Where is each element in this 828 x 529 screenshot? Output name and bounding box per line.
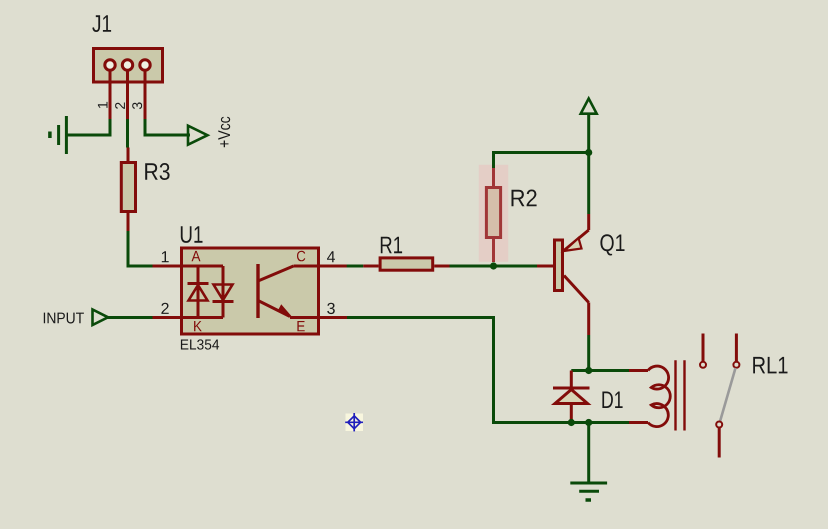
wire R1 to Q1 base (through node) <box>450 265 538 268</box>
resistor R3 <box>121 148 135 232</box>
led left rail <box>197 266 200 318</box>
label +Vcc <box>218 117 230 148</box>
pin label C <box>297 251 305 262</box>
label U1 <box>181 226 203 243</box>
power terminal +Vcc (top) <box>581 99 597 114</box>
label EL354 <box>181 339 219 349</box>
pin number 3 (J1) <box>132 102 142 109</box>
wire R3 to U1 pin1 <box>128 231 153 266</box>
wire node to D1 cathode <box>571 369 588 372</box>
wire node to relay coil top <box>589 369 629 372</box>
label D1 <box>602 392 622 409</box>
node D1 anode <box>568 419 575 426</box>
core line 1 <box>674 360 676 430</box>
wire R2 top to Vcc rail <box>494 153 589 169</box>
pin number 2 (J1) <box>115 103 125 109</box>
label J1 <box>92 15 111 32</box>
wire Q1 collector down <box>587 335 590 371</box>
label INPUT <box>44 313 84 324</box>
pin label K <box>194 321 202 331</box>
wire to ground (bottom) <box>587 423 590 484</box>
wire Vcc down to Q1 emitter <box>587 114 590 214</box>
optocoupler U1 <box>153 248 348 334</box>
contact pole left <box>702 334 705 362</box>
node ground junction <box>585 419 592 426</box>
pin 2 wire (K) <box>153 316 224 319</box>
emitter diagonal <box>258 301 290 317</box>
pin number 1 (J1) <box>98 102 108 108</box>
label RL1 <box>753 357 787 374</box>
power terminal +Vcc <box>188 126 208 145</box>
pin number 1 (U1) <box>162 251 169 262</box>
pin label A <box>192 251 201 261</box>
label Q1 <box>600 234 624 255</box>
coil bottom pin <box>629 421 648 424</box>
pin label E <box>297 321 304 331</box>
pin 4 wire (C) <box>294 265 348 268</box>
pin number 2 (U1) <box>161 303 168 314</box>
led right rail <box>222 266 225 318</box>
phototransistor base bar <box>256 264 259 318</box>
wire J1 pin3 to +Vcc <box>145 119 190 135</box>
common contact <box>716 422 722 428</box>
pin 1 wire (A) <box>153 265 224 268</box>
pin number 4 (U1) <box>327 251 335 262</box>
wire J1 pin1 to ground <box>66 119 110 135</box>
node Q1 collector / D1 / relay <box>585 367 592 374</box>
label R1 <box>381 237 402 254</box>
resistor R2 (selected/highlighted) <box>479 165 508 262</box>
connector J1 <box>94 49 163 148</box>
diode D1 <box>553 371 590 423</box>
wire bottom rail (U1 pin3 to relay) <box>347 318 629 423</box>
wire U1 pin4 to R1 <box>347 265 364 268</box>
ground (bottom) <box>570 483 607 500</box>
collector diagonal <box>258 266 294 281</box>
transistor Q1 (PNP) <box>537 214 589 335</box>
wire INPUT to U1 pin2 <box>106 316 153 319</box>
pin number 3 (U1) <box>327 303 335 314</box>
core line 2 <box>683 360 685 430</box>
resistor R1 <box>363 258 449 270</box>
pin 3 wire (E) <box>290 316 347 319</box>
diode D-right (triangle down + cathode bar) <box>214 285 233 301</box>
diode D-left (cathode bar + triangle up) <box>188 282 209 285</box>
input terminal <box>93 310 109 326</box>
relay RL1 <box>629 334 739 458</box>
ground (left, rotated) <box>50 116 67 154</box>
node Vcc rail junction <box>585 149 592 156</box>
switch blade <box>720 368 736 422</box>
node R2/R1/Q1 base junction <box>490 262 497 269</box>
coil top pin <box>629 369 648 372</box>
label R2 <box>512 190 537 207</box>
contact pole right <box>735 334 738 362</box>
emitter arrow <box>278 305 291 317</box>
origin marker <box>345 413 363 431</box>
label R3 <box>145 163 169 180</box>
coil loops <box>648 366 670 427</box>
